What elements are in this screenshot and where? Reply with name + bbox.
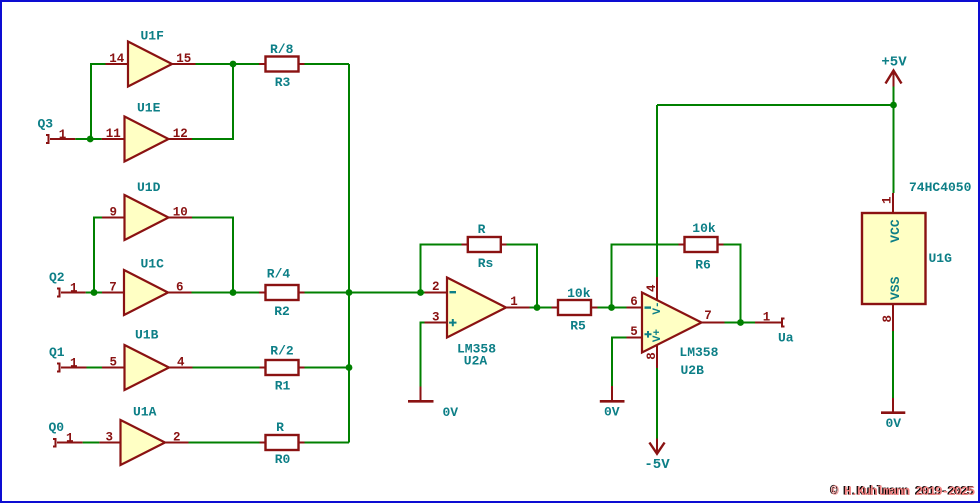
label U1A [133, 405, 157, 420]
svg-text:U1A: U1A [133, 405, 157, 420]
label U1F [141, 29, 165, 44]
svg-text:3: 3 [105, 431, 113, 445]
pin 1 U2A stub [506, 307, 530, 309]
pin 5 U1B stub [102, 367, 125, 369]
svg-text:LM358: LM358 [679, 345, 718, 360]
svg-text:Q3: Q3 [38, 117, 54, 132]
buffer U1B [125, 345, 170, 390]
pin number 6 of U2B [630, 295, 638, 309]
junction R5-R6 node [608, 304, 615, 311]
pin number 15 [176, 52, 191, 66]
connector Q0 bracket [53, 439, 56, 447]
svg-text:14: 14 [109, 52, 125, 66]
pin 10 U1D stub [169, 217, 193, 219]
junction Q2 [91, 289, 98, 296]
svg-text:R3: R3 [275, 75, 291, 90]
svg-text:R: R [478, 222, 486, 237]
value 10k of R6 [692, 221, 716, 236]
pin 4 U1B stub [169, 367, 193, 369]
pin 11 U1E stub [102, 138, 125, 140]
svg-text:5: 5 [109, 356, 117, 370]
svg-text:U1G: U1G [929, 251, 953, 266]
pin number 14 [109, 52, 125, 66]
junction +5V rail [890, 102, 897, 109]
label U1B [135, 328, 159, 343]
copyright watermark [830, 483, 976, 499]
svg-text:0V: 0V [886, 416, 902, 431]
resistor R1 body [266, 360, 299, 375]
value R/8 [270, 42, 294, 57]
buffer U1C [124, 270, 168, 315]
svg-text:2: 2 [432, 280, 440, 294]
wire U2B output to Ua [725, 322, 756, 324]
resistor R6 leads [679, 244, 724, 246]
wire summing bus vertical [348, 64, 350, 443]
pin 8 U2B power stub [656, 345, 658, 369]
svg-text:6: 6 [630, 295, 638, 309]
junction node B [230, 289, 237, 296]
svg-text:1: 1 [880, 196, 894, 204]
wire U2B pin 8 down to -5V [656, 368, 658, 439]
op-amp U2B plus mark [645, 331, 652, 338]
svg-text:V+: V+ [652, 329, 664, 343]
wire R5 right to U2B pin 6 [598, 307, 627, 309]
pin name VCC of U1G [888, 219, 903, 243]
ground symbol under U2A [408, 387, 434, 402]
svg-text:12: 12 [173, 127, 188, 141]
wire U2B pin 5 to ground [612, 338, 627, 387]
pin 7 U2B stub [702, 322, 725, 324]
label U1C [141, 257, 165, 272]
op-amp U2A [447, 278, 506, 338]
op-amp U2B [642, 293, 702, 353]
pin number 6 of U1C [176, 281, 184, 295]
svg-text:4: 4 [177, 356, 185, 370]
svg-text:4: 4 [645, 284, 659, 292]
pin 5 U2B stub [627, 337, 643, 339]
name R6 [695, 258, 711, 273]
svg-text:U1F: U1F [141, 29, 165, 44]
buffer U1D [125, 195, 169, 240]
svg-text:1: 1 [510, 295, 518, 309]
pin number 3 of U1A [105, 431, 113, 445]
wire U1G pin 8 to ground [892, 331, 894, 398]
name R3 [275, 75, 291, 90]
junction node A [230, 61, 237, 68]
name R0 [275, 452, 291, 467]
wire R1 right to bus [305, 367, 350, 369]
pin number 7 of U1C [109, 281, 117, 295]
pin number 1 of Q0 [66, 432, 74, 446]
wire Q1 input [87, 367, 103, 369]
resistor R0 body [266, 435, 299, 450]
pin 6 U1C stub [168, 292, 192, 294]
svg-text:R: R [276, 420, 284, 435]
svg-text:R1: R1 [275, 379, 291, 394]
pin number 1 of Q2 [70, 282, 78, 296]
buffer U1A [121, 420, 166, 465]
ground symbol under U2B [600, 386, 625, 401]
svg-text:5: 5 [630, 325, 638, 339]
IC U1G body [862, 213, 926, 304]
wire R6 right down to U2B output [724, 245, 741, 323]
svg-text:+5V: +5V [881, 55, 907, 71]
pin number 1 of Ua [763, 310, 771, 324]
svg-text:VCC: VCC [888, 219, 903, 243]
pin 12 U1E stub [169, 138, 193, 140]
svg-text:0V: 0V [443, 405, 459, 420]
power symbol -5V arrow [649, 439, 664, 454]
value R/2 [270, 344, 294, 359]
svg-text:6: 6 [176, 281, 184, 295]
svg-text:1: 1 [59, 128, 67, 142]
svg-text:Rs: Rs [478, 256, 494, 271]
connector Ua bracket [782, 319, 785, 327]
pin number 3 of U2A [432, 310, 440, 324]
resistor R1 leads [260, 367, 305, 369]
svg-text:U2B: U2B [681, 363, 705, 378]
pin 8 U1G stub [892, 304, 894, 331]
label U1D [137, 180, 161, 195]
wire R3 right to bus [305, 63, 350, 65]
wire +5V symbol to U1G pin 1 [893, 87, 895, 194]
svg-text:U1C: U1C [141, 257, 165, 272]
svg-text:0V: 0V [604, 405, 620, 420]
svg-text:U2A: U2A [464, 354, 488, 369]
svg-text:8: 8 [881, 315, 895, 323]
value 10k of R5 [567, 286, 591, 301]
connector Q3 bracket [46, 135, 49, 143]
svg-text:Q1: Q1 [49, 345, 65, 360]
svg-text:7: 7 [109, 281, 117, 295]
wire U1F output to node A [196, 63, 260, 65]
name R1 [275, 379, 291, 394]
label +5V [881, 55, 907, 71]
junction Q3 [87, 136, 94, 143]
value R of R0 [276, 420, 284, 435]
svg-text:7: 7 [704, 309, 712, 323]
junction bus row Q2 [346, 289, 353, 296]
resistor Rs body [468, 237, 501, 252]
connector Q1 bracket [57, 364, 60, 372]
junction U2A pin 2 feedback [417, 289, 424, 296]
svg-text:U1D: U1D [137, 180, 161, 195]
svg-text:Ua: Ua [778, 331, 794, 346]
svg-text:R/8: R/8 [270, 42, 294, 57]
pin number 1 of U2A [510, 295, 518, 309]
svg-text:1: 1 [763, 310, 771, 324]
connector Q2 bracket [57, 289, 60, 297]
pin 9 U1D stub [102, 217, 125, 219]
pin 15 U1F stub [172, 63, 196, 65]
wire +5V rail horizontal [657, 104, 894, 106]
name U1G [929, 251, 953, 266]
wire node Q2 up to U1D input [94, 218, 102, 293]
label 0V under U2A [443, 405, 459, 420]
pin number 2 of U1A [173, 431, 181, 445]
svg-text:3: 3 [432, 310, 440, 324]
wire Rs right down to U2A output [507, 245, 538, 308]
svg-text:8: 8 [645, 352, 659, 360]
pin 3 U1A stub [99, 442, 120, 444]
name Rs [478, 256, 494, 271]
op-amp U2A minus mark [450, 291, 457, 293]
svg-text:U1B: U1B [135, 328, 159, 343]
wire U2A pin 3 to ground [421, 323, 425, 387]
svg-text:R6: R6 [695, 258, 711, 273]
pin 6 U2B stub [627, 307, 643, 309]
label Q1 [49, 345, 65, 360]
pin 7 U1C stub [102, 292, 124, 294]
svg-text:R5: R5 [570, 319, 586, 334]
node Q2 connector lead [61, 292, 86, 294]
value 74HC4050 of U1G [909, 180, 972, 195]
pin 2 U1A stub [165, 442, 189, 444]
wire R0 right to bus [305, 442, 350, 444]
pin name V- of U2B [652, 301, 664, 314]
label 0V under U1G [886, 416, 902, 431]
svg-text:15: 15 [176, 52, 191, 66]
svg-text:U1E: U1E [137, 101, 161, 116]
node Q0 connector lead [57, 442, 83, 444]
resistor R3 leads [259, 63, 305, 65]
resistor R5 leads [552, 307, 598, 309]
label Q3 [38, 117, 54, 132]
svg-text:9: 9 [109, 206, 117, 220]
label U1E [137, 101, 161, 116]
resistor Rs leads [462, 244, 507, 246]
svg-text:VSS: VSS [888, 276, 903, 300]
value LM358 of U2A [457, 342, 496, 357]
resistor R5 body [558, 300, 591, 315]
label Ua [778, 331, 794, 346]
wire node R5-R6 vertical [612, 245, 679, 308]
op-amp U2B minus mark [645, 306, 652, 308]
name U2A [464, 354, 488, 369]
label 0V under U2B [604, 405, 620, 420]
name U2B [681, 363, 705, 378]
buffer U1F [128, 42, 172, 87]
resistor R3 body [266, 57, 299, 72]
junction U2A output [534, 304, 541, 311]
node Q1 connector lead [61, 367, 87, 369]
svg-text:1: 1 [70, 282, 78, 296]
pin number 11 [106, 127, 121, 141]
resistor R6 body [685, 237, 718, 252]
svg-text:10: 10 [173, 206, 188, 220]
name R5 [570, 319, 586, 334]
node Q3 connector lead [50, 138, 75, 140]
pin number 7 of U2B [704, 309, 712, 323]
svg-text:-5V: -5V [644, 457, 670, 473]
wire +5V rail down to U2B pin 4 [656, 105, 658, 277]
wire U1A output to R0 [189, 442, 260, 444]
pin number 1 of Q3 [59, 128, 67, 142]
label Q0 [49, 420, 65, 435]
resistor R2 leads [259, 292, 305, 294]
pin 1 U1G stub [892, 193, 894, 213]
svg-text:Q0: Q0 [49, 420, 65, 435]
junction U2B output [737, 319, 744, 326]
wire U1C output through node B to R2 [192, 292, 260, 294]
pin number 2 of U2A [432, 280, 440, 294]
label -5V [644, 457, 670, 473]
svg-text:74HC4050: 74HC4050 [909, 180, 972, 195]
svg-text:R/2: R/2 [270, 344, 294, 359]
svg-text:R2: R2 [274, 304, 290, 319]
svg-text:1: 1 [70, 357, 78, 371]
svg-text:10k: 10k [692, 221, 716, 236]
svg-text:Q2: Q2 [49, 270, 65, 285]
label Q2 [49, 270, 65, 285]
pin 4 U2B power stub [656, 277, 658, 301]
svg-text:© H.Kuhlmann 2019-2025: © H.Kuhlmann 2019-2025 [831, 484, 976, 499]
pin number 9 [109, 206, 117, 220]
resistor R2 body [266, 285, 299, 300]
svg-text:V-: V- [652, 301, 664, 314]
wire U1B output to R1 [193, 367, 260, 369]
pin 3 U2A stub [425, 322, 448, 324]
wire R2 right to U2A pin 2 [305, 292, 425, 294]
svg-text:10k: 10k [567, 286, 591, 301]
node Ua output lead [755, 322, 781, 324]
svg-text:R0: R0 [275, 452, 291, 467]
value R/4 [267, 267, 291, 282]
pin number 4 of U2B rotated [645, 284, 659, 292]
pin number 1 of U1G rotated [880, 196, 894, 204]
svg-text:1: 1 [66, 432, 74, 446]
wire Q3 input to junction [75, 138, 101, 140]
pin number 8 of U2B rotated [645, 352, 659, 360]
wire U1D output down to node B [192, 218, 233, 293]
buffer U1E [125, 117, 169, 162]
power symbol +5V arrow [886, 71, 902, 87]
wire U2A feedback left vertical [421, 245, 462, 293]
wire Q0 input [83, 442, 100, 444]
pin number 1 of Q1 [70, 357, 78, 371]
pin number 5 of U1B [109, 356, 117, 370]
pin number 12 [173, 127, 188, 141]
name R2 [274, 304, 290, 319]
value LM358 of U2B [679, 345, 718, 360]
pin name VSS of U1G [888, 276, 903, 300]
pin number 10 [173, 206, 188, 220]
pin number 4 of U1B [177, 356, 185, 370]
pin 2 U2A stub [425, 292, 448, 294]
wire U1E output up to node A [192, 64, 233, 139]
svg-text:R/4: R/4 [267, 267, 291, 282]
svg-text:2: 2 [173, 431, 181, 445]
wire node Q3 up to U1F input [91, 64, 106, 139]
pin name V+ of U2B [652, 329, 664, 343]
pin number 5 of U2B [630, 325, 638, 339]
wire U2A output to R5 [530, 307, 552, 309]
junction bus row Q1 [346, 364, 353, 371]
wire Q2 input to junction [86, 292, 102, 294]
op-amp U2A plus mark [449, 319, 457, 326]
pin number 8 of U1G rotated [881, 315, 895, 323]
pin 14 U1F stub [106, 63, 129, 65]
resistor R0 leads [260, 442, 305, 444]
value R of Rs [478, 222, 486, 237]
svg-text:11: 11 [106, 127, 121, 141]
ground symbol under U1G [881, 398, 905, 413]
